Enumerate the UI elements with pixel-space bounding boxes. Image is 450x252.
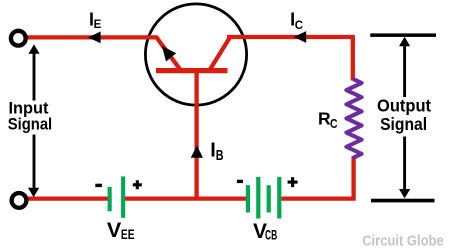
svg-text:C: C (330, 117, 338, 131)
transistor Q1 base lead vertical wire (194, 70, 198, 199)
battery VCB plus sign (288, 177, 298, 187)
svg-text:Signal: Signal (380, 114, 427, 134)
resistor RC squiggle (346, 80, 361, 158)
wire: collector horizontal top right (227, 37, 353, 81)
svg-text:Circuit Globe: Circuit Globe (362, 234, 444, 250)
battery VCB short plate 3 (267, 185, 271, 212)
current arrow IB (191, 146, 203, 158)
transistor Q1 collector diagonal lead (210, 37, 231, 70)
svg-text:EE: EE (121, 226, 135, 242)
battery VEE short plate (108, 187, 112, 212)
current arrow IC (294, 31, 306, 43)
wire: rail between battery VCB and battery VEE (junction with base lead) (125, 196, 246, 200)
wire: resistor bottom to rail corner, rail to battery VCB (281, 156, 353, 199)
battery VCB minus sign (237, 180, 243, 183)
svg-text:V: V (107, 218, 122, 242)
battery VEE long plate (121, 176, 125, 217)
svg-text:Output: Output (377, 96, 431, 116)
transistor Q1 base bar (156, 68, 228, 73)
svg-text:E: E (94, 19, 102, 31)
svg-text:CB: CB (265, 226, 277, 242)
output signal bottom bar (371, 199, 435, 203)
battery VCB short plate 1 (246, 185, 250, 212)
terminal input top (11, 31, 26, 46)
terminal input bottom (12, 193, 27, 208)
input signal lower arrow (points down) (33, 135, 36, 190)
output signal lower arrow (points down) (403, 137, 406, 190)
transistor Q1 emitter arrowhead (162, 46, 176, 62)
output signal top bar (370, 33, 436, 37)
output signal upper arrow (points up) (403, 45, 406, 97)
svg-text:B: B (216, 147, 224, 164)
wire: rail from battery VEE to bottom terminal (28, 196, 108, 200)
battery VEE minus sign (95, 184, 102, 187)
current arrow IE (88, 32, 101, 44)
input signal upper arrow (points up) (33, 52, 36, 101)
svg-text:C: C (295, 20, 303, 32)
battery VCB long plate 4 (277, 177, 281, 219)
battery VEE plus sign (133, 180, 142, 189)
battery VCB long plate 2 (256, 177, 260, 219)
wire: input top horizontal from terminal to emitter bend (27, 37, 181, 70)
transistor Q1 circle (145, 4, 246, 105)
svg-text:Signal: Signal (8, 116, 53, 134)
